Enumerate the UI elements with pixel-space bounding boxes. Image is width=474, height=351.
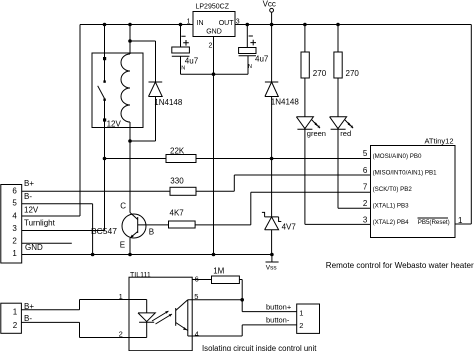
svg-text:B: B	[149, 228, 154, 237]
resistor R5 4K7 body	[169, 221, 196, 228]
wire button-	[242, 325, 297, 336]
junction dots	[103, 23, 107, 27]
connector J3 buttons box	[297, 304, 320, 333]
svg-text:2: 2	[119, 329, 123, 338]
svg-text:OUT: OUT	[219, 20, 235, 27]
wire TIL pin4	[188, 335, 242, 337]
svg-text:1: 1	[458, 216, 463, 225]
wire TIL pin6 to 1M	[192, 280, 242, 312]
svg-text:B-: B-	[24, 192, 32, 201]
svg-text:ATtiny12: ATtiny12	[424, 137, 453, 146]
svg-text:330: 330	[170, 177, 184, 186]
svg-text:2: 2	[209, 42, 213, 49]
svg-text:3: 3	[363, 216, 368, 225]
svg-text:3: 3	[12, 224, 17, 233]
opto light arrows	[152, 311, 172, 324]
resistor R4 270 red branch wire	[337, 25, 339, 209]
svg-text:4V7: 4V7	[282, 222, 297, 231]
wire J2 pin2 to TIL111	[21, 322, 129, 337]
svg-text:Isolating circuit inside contr: Isolating circuit inside control unit	[202, 344, 317, 351]
svg-text:5: 5	[363, 149, 368, 158]
wire diode D1 links	[130, 41, 156, 141]
wire Turnlight	[22, 230, 105, 232]
wire regulator GND down to Vss rail	[213, 37, 215, 255]
svg-text:2: 2	[12, 237, 17, 246]
connector J1 box	[1, 185, 22, 264]
relay switch blade	[98, 86, 105, 99]
resistor R3 270 body	[301, 52, 309, 78]
opto LED symbol	[138, 313, 155, 322]
svg-text:1: 1	[12, 249, 17, 258]
wire PB4 net green LED	[305, 223, 371, 225]
wire right edge to ATtiny pin 1	[455, 25, 471, 225]
capacitor C1 plates	[172, 47, 190, 53]
capacitor C2 plates	[239, 48, 256, 54]
relay contact terminal squares	[103, 57, 106, 60]
wire 12V riser	[22, 25, 80, 217]
svg-text:LP2950CZ: LP2950CZ	[196, 4, 230, 11]
wire J2 pin1 to TIL111	[21, 300, 129, 310]
svg-text:IN: IN	[197, 20, 204, 27]
IC U1 ATtiny12 box	[371, 146, 456, 238]
svg-text:(MISO/INT0/AIN1) PB1: (MISO/INT0/AIN1) PB1	[373, 169, 438, 176]
wire switch branch lower to Turnlight	[104, 100, 106, 231]
svg-text:1: 1	[119, 292, 123, 301]
diode D2 symbol	[265, 82, 278, 97]
wire coil branch	[129, 25, 131, 213]
wire B+ net to 330	[22, 175, 235, 191]
wire TIL pin5	[188, 299, 242, 301]
resistor R6 1M body	[212, 276, 240, 284]
wire top rail left (12V rail to regulator IN)	[80, 24, 193, 26]
wire PB3 net red LED	[338, 207, 371, 209]
diode D1 1N4148 symbol	[149, 82, 163, 97]
wire emitter to ground rail	[129, 238, 131, 255]
svg-text:Turnlight: Turnlight	[24, 218, 56, 227]
svg-text:4: 4	[195, 330, 199, 339]
svg-text:1N4148: 1N4148	[154, 98, 183, 107]
svg-text:TIL111: TIL111	[130, 272, 151, 279]
svg-text:2: 2	[299, 321, 303, 330]
svg-text:12V: 12V	[24, 205, 39, 214]
resistor R1 22K body	[166, 155, 196, 163]
svg-text:2: 2	[13, 321, 18, 330]
Vss symbol	[266, 255, 279, 263]
svg-text:GND: GND	[206, 29, 222, 36]
svg-text:6: 6	[363, 166, 368, 175]
LED red arrows	[345, 120, 353, 128]
svg-text:1: 1	[299, 308, 303, 317]
relay coil L1	[121, 54, 130, 122]
capacitor C2 polarity marks	[249, 36, 256, 45]
svg-text:C: C	[120, 202, 126, 211]
svg-text:2: 2	[363, 199, 368, 208]
Vcc symbol	[271, 12, 273, 24]
transistor Q1 BC547	[122, 214, 146, 238]
svg-text:4u7: 4u7	[185, 57, 199, 66]
resistor R4 270 body	[334, 52, 342, 78]
svg-text:N: N	[248, 64, 252, 70]
opto LED wires	[129, 300, 147, 338]
LED green arrows	[312, 120, 320, 128]
svg-text:E: E	[120, 240, 125, 249]
wire button+	[242, 311, 297, 313]
regulator U2 LP2950CZ box	[193, 12, 235, 37]
LED green symbol	[296, 117, 313, 130]
resistor R2 330 body	[170, 187, 196, 195]
wire ground rail	[22, 254, 272, 256]
capacitor C2 4u7 leads	[246, 25, 249, 75]
capacitor C1 polarity marks	[181, 36, 189, 45]
svg-text:(SCK/T0) PB2: (SCK/T0) PB2	[373, 186, 413, 193]
wire PB0 net 22K	[105, 158, 371, 160]
svg-text:1: 1	[187, 19, 191, 26]
svg-text:5: 5	[12, 199, 17, 208]
wire PB2 net to base	[138, 192, 371, 225]
svg-text:4: 4	[12, 211, 17, 220]
svg-text:12V: 12V	[107, 119, 122, 128]
optocoupler U3 TIL111 box	[129, 277, 192, 351]
svg-text:270: 270	[346, 69, 360, 78]
svg-text:1M: 1M	[213, 267, 224, 276]
svg-text:B+: B+	[24, 179, 34, 188]
svg-text:Remote control for Webasto wat: Remote control for Webasto water heater	[326, 261, 474, 270]
svg-text:1N4148: 1N4148	[271, 97, 300, 106]
svg-text:B-: B-	[24, 314, 32, 323]
svg-text:green: green	[307, 129, 326, 138]
wire pin2 stub	[22, 242, 72, 244]
svg-text:(XTAL1) PB3: (XTAL1) PB3	[373, 203, 410, 210]
wire B- net	[22, 204, 93, 255]
svg-text:BC547: BC547	[91, 226, 117, 236]
svg-text:22K: 22K	[170, 147, 185, 156]
svg-text:button+: button+	[266, 303, 292, 312]
svg-text:button-: button-	[266, 315, 290, 324]
svg-text:(XTAL2) PB4: (XTAL2) PB4	[373, 219, 410, 226]
svg-text:270: 270	[313, 69, 327, 78]
svg-text:(MOSI/AIN0) PB0: (MOSI/AIN0) PB0	[373, 153, 422, 160]
diode D2 1N4148 vertical	[271, 25, 273, 159]
junction dot 1M/pin5	[240, 298, 244, 302]
resistor R3 270 green branch wire	[304, 25, 306, 225]
svg-text:N: N	[181, 65, 185, 71]
svg-text:Vcc: Vcc	[263, 0, 276, 9]
relay K1 box	[92, 53, 143, 128]
capacitor C1 4u7 leads	[181, 25, 249, 75]
wire top rail right (Vcc rail)	[235, 24, 471, 26]
svg-text:4K7: 4K7	[170, 209, 185, 218]
wire switch branch upper	[104, 25, 106, 82]
LED red symbol	[330, 117, 347, 130]
svg-text:7: 7	[363, 182, 368, 191]
opto phototransistor	[175, 308, 177, 326]
zener D3 4V7 symbol	[262, 159, 281, 255]
svg-text:6: 6	[12, 186, 17, 195]
svg-text:1: 1	[13, 308, 18, 317]
svg-text:4u7: 4u7	[255, 54, 269, 63]
svg-text:GND: GND	[25, 243, 43, 252]
svg-text:Vss: Vss	[266, 265, 278, 272]
wire PB1 net	[234, 174, 370, 176]
svg-text:PB5(Reset): PB5(Reset)	[418, 219, 450, 226]
connector J2 box	[1, 303, 22, 333]
relay switch contacts	[103, 80, 105, 82]
svg-text:red: red	[340, 129, 351, 138]
